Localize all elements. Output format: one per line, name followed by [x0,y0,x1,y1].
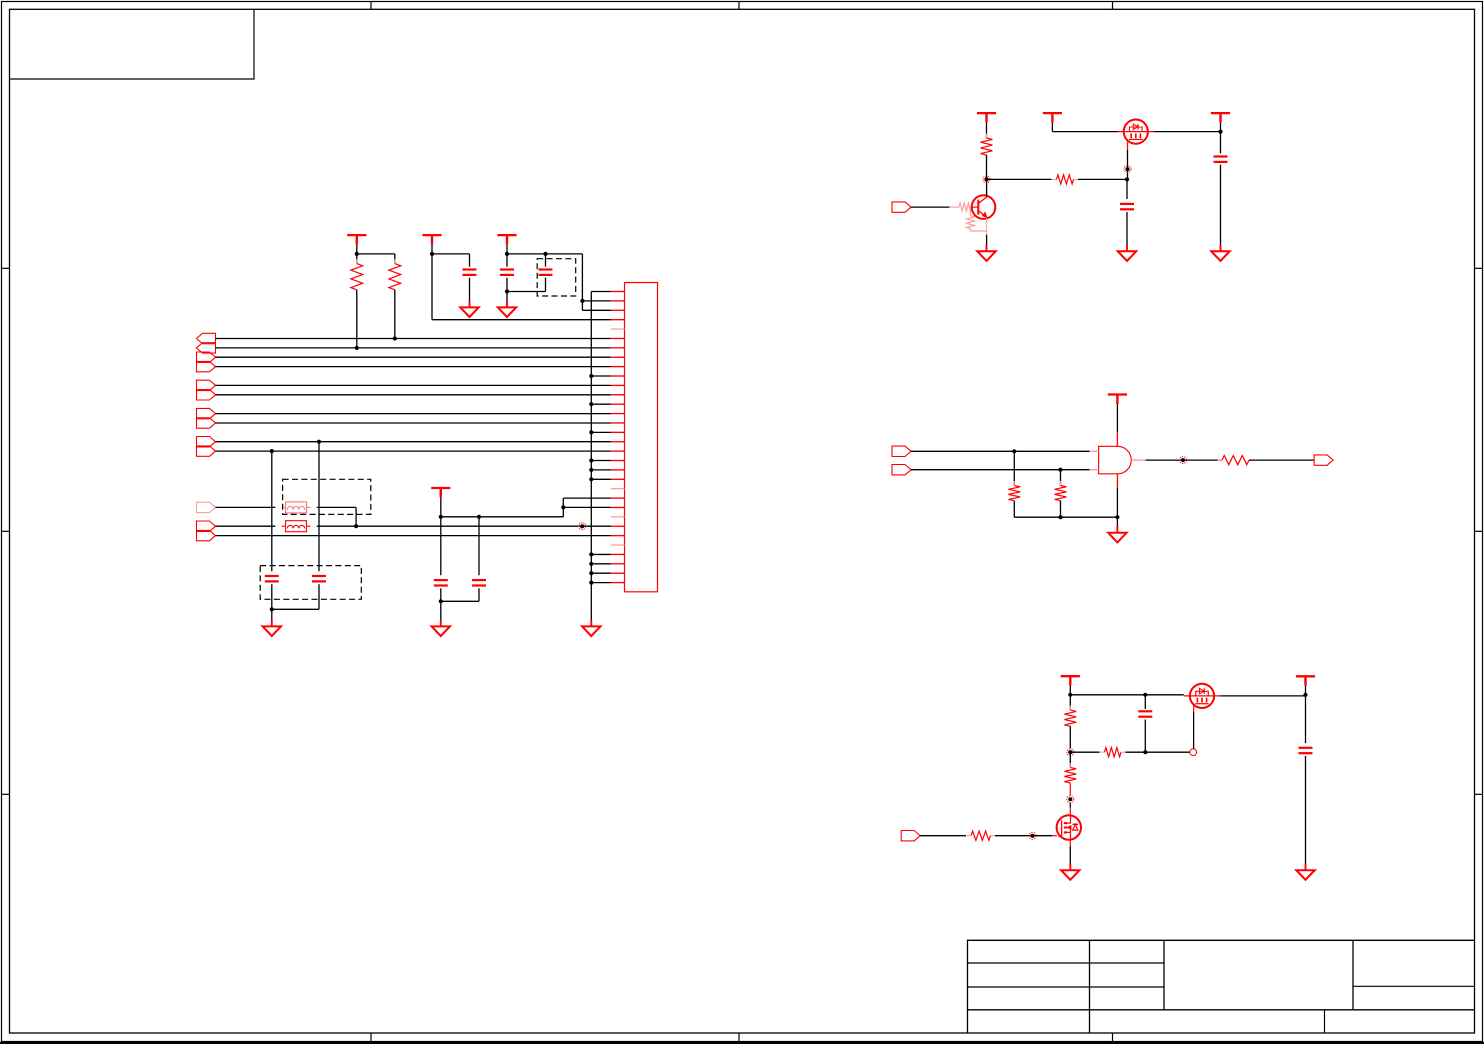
resistor R4 gate series [1052,178,1057,180]
wire C4 bottom to gnd rail [271,584,273,621]
wire VCC3 rail down at right [581,254,583,310]
power flag VCC4 (mid caps) [431,487,450,489]
border zone tick bottom 2 [738,1033,740,1042]
ground under Q3 [1069,864,1071,870]
capacitor C9 output bulk [1214,155,1228,157]
wire port P5 to pin 11 [216,384,611,386]
wire VCC2 to C1 top [432,253,470,255]
power flag VCC6 (PMOS source) [1043,112,1062,114]
border zone tick top 3 [1112,2,1114,10]
test point collector node [985,177,989,181]
DNP dashed box around FB1 [283,479,371,514]
power flag VOUT1 [1211,112,1230,114]
port P5 [197,380,216,390]
wire gate node to R9 [1070,751,1099,753]
title block outline [968,940,1475,1033]
node GND bus to pin 21 [589,477,593,481]
wire VCC4 stem [440,498,442,517]
capacitor C10 gate RC [1144,695,1146,709]
wire R7 to port P17 [1249,459,1314,461]
wire port P4 to pin 9 [216,366,611,368]
border zone tick bottom 1 [370,1033,372,1042]
connector J1 pin 15 [611,422,625,424]
node output junction [1303,693,1307,697]
wire port P7 to pin 14 [216,413,611,415]
capacitor C3 (in DNP box) [545,254,547,267]
wire to ground under C2 [506,292,508,302]
wire VCC1 stem [356,245,358,254]
resistor R1 [356,259,358,264]
connector J1 pin 7 [611,347,625,349]
wire VCC3 top rail to right [507,253,582,255]
node VCC8 junction [1068,693,1072,697]
node GND bus to pin 16 [589,430,593,434]
node P9 branch [317,440,321,444]
wire to connector pin 2 [582,300,611,302]
capacitor C5 (in DNP box) [312,575,326,577]
connector J1 pin 31 [611,572,625,574]
connector J1 pin 21 [611,478,625,480]
node C7 branch [477,515,481,519]
power flag VCC2 (filter caps) [422,234,441,236]
connector J1 pin 14 [611,413,625,415]
node GND bus to pin 20 [589,468,593,472]
DNP dashed box around C4 C5 [260,566,361,600]
port P17 output [1314,455,1333,465]
AND gate U1 [1099,446,1132,474]
node C4 gnd junction [270,607,274,611]
wire port P10 to pin 18 [216,450,611,452]
node P10 branch [270,449,274,453]
U1 ground pin stub [1116,474,1118,488]
wire port P12 to bead FB2 [216,525,276,527]
sheet bottom edge thick bar [0,1042,1484,1044]
wire R6 top lead [1060,470,1062,486]
node C10 bottom junction [1143,750,1147,754]
port P6 [197,390,216,400]
connector J1 pin 3 [611,309,625,311]
wire bus to pin 1 [591,291,611,293]
wire R5 top lead [1013,451,1015,485]
connector J1 pin 5 [611,328,625,330]
title block column line 2 [1163,940,1165,1010]
wire Q1 collector up [986,179,988,196]
border zone tick right 3 [1475,793,1483,795]
wire U1 output to R7 [1146,459,1222,461]
connector J1 pin 12 [611,394,625,396]
connector J1 pin 2 [611,300,625,302]
wire U1 ground pin down [1116,487,1118,526]
capacitor C4 (in DNP box) [265,575,279,577]
wire VCC2 down to connector pin 4 row [431,254,433,320]
connector J1 pin 18 [611,450,625,452]
node pin2 branch [580,299,584,303]
wire C2 bottom [506,278,508,292]
ground under U1 [1116,527,1118,533]
node GND bus to pin 30 [589,562,593,566]
resistor R7 output series [1218,459,1223,461]
wire P16 to U1 input B [911,469,1090,471]
node C3 top junction [543,252,547,256]
resistor R6 pulldown B [1060,481,1062,486]
wire P14 to Q1 base resistor [911,206,950,208]
wire Q1 emitter to ground [986,218,988,235]
node FB1 joins P12 net [354,524,358,528]
resistor R3 collector pull-up [986,134,988,139]
power flag VCC7 [1108,393,1127,395]
wire VCC8 stem [1069,686,1071,695]
ground under C11 [1305,864,1307,870]
wire to connector pin 3 [582,309,611,311]
node C2 bottom junction [505,289,509,293]
wire VCC5 to R3 [986,123,988,138]
test point on pin26 net [580,524,584,528]
port P16 gate input B [892,465,911,475]
title block row line 2 left [968,986,1165,988]
port P3 [197,352,216,362]
wire R4 to gate node [1078,178,1127,180]
test point gate drive node [1068,750,1072,754]
wire port P9 to pin 17 [216,441,611,443]
test point Q2 gate [1126,167,1130,171]
connector J1 pin 22 [611,488,625,490]
wire R1 top lead [356,254,358,264]
power flag VCC1 (pull-up rail) [347,234,366,236]
transistor Q4 PMOS load switch [1190,684,1214,708]
wire to connector pin 23 [563,497,611,499]
connector J1 pin 26 [611,525,625,527]
test point Q3 drain [1068,797,1072,801]
node GND bus to pin 10 [589,374,593,378]
connector J1 pin 32 [611,582,625,584]
ground under C9 [1220,245,1222,251]
wire VOUT2 stem [1305,686,1307,695]
power flag VCC5 [977,112,996,114]
border zone tick top 2 [738,2,740,10]
connector J1 pin 24 [611,506,625,508]
wire port P11 to bead FB1 [216,506,276,508]
node C10 top branch [1143,693,1147,697]
ground under C1 [469,301,471,307]
wire gate node down to C8 [1126,179,1128,199]
connector J1 pin 25 [611,516,625,518]
wire VCC4 rail right [441,516,564,518]
port P4 [197,361,216,371]
wire port P6 to pin 12 [216,394,611,396]
connector J1 pin 8 [611,356,625,358]
port P2 (left-pointing) [197,343,216,353]
wire Q4 drain to output [1220,695,1305,697]
node VCC2 junction [430,252,434,256]
wire C7 bottom link [478,588,480,601]
Q4 gate pin circle [1190,749,1197,756]
capacitor C6 [434,579,448,581]
capacitor C8 gate filter [1120,203,1134,205]
wire collector node to R4 [987,178,1052,180]
connector J1 pin 9 [611,366,625,368]
node GND bus to pin 29 [589,552,593,556]
node R1-wire junction [355,346,359,350]
connector J1 pin 27 [611,535,625,537]
wire Q4 gate vertical [1193,708,1195,749]
wire VOUT1 stem [1220,123,1222,132]
border zone tick left 3 [2,793,10,795]
connector J1 pin 28 [611,544,625,546]
node C6 gnd junction [439,599,443,603]
capacitor C11 output [1299,747,1313,749]
port P11 (faded) [197,502,216,512]
ferrite bead FB1 (faded) [282,502,311,513]
U1 output pin stub [1131,459,1145,461]
resistor R5 pulldown A [1013,481,1015,486]
resistor R2 [394,259,396,264]
wire C2-C3 bottom link [507,291,546,293]
border zone tick top 1 [370,2,372,10]
port P12 [197,521,216,531]
title block column line 3 [1352,940,1354,1010]
wire R3 to collector node [986,155,988,179]
node Q2 output junction [1218,130,1222,134]
connector J1 pin 16 [611,431,625,433]
wire VCC1 to R2 top [357,253,395,255]
port P7 [197,408,216,418]
DNP dashed box around C3 [537,259,576,296]
connector J1 pin 11 [611,384,625,386]
wire VCC8 rail to Q4 source [1070,694,1183,696]
wire C8 to ground [1126,212,1128,246]
title block row line 3 [968,1009,1475,1011]
ground under C2 [506,301,508,307]
U1 input pin stubs [1090,450,1099,452]
port P15 gate input A [892,446,911,456]
capacitor C7 [472,579,486,581]
wire R10 to Q3 drain [1069,783,1071,795]
wire port P8 to pin 15 [216,422,611,424]
wire VCC4 rail up to pins 23/24 [562,498,564,517]
wire port P1 to pin 6 [216,338,611,340]
connector J1 body [625,283,658,592]
border zone tick right 2 [1475,530,1483,532]
wire C7 top lead [478,517,480,575]
node VCC4 junction [439,515,443,519]
node GND bus to pin 31 [589,571,593,575]
node R6 gnd junction [1058,515,1062,519]
wire P15 to U1 input A [911,450,1090,452]
wire port P13 to pin 27 [216,535,611,537]
node GND bus to pin 19 [589,458,593,462]
border zone tick left 2 [2,530,10,532]
port P8 [197,418,216,428]
ground under connector GND bus [590,620,592,626]
wire C11 to ground [1305,756,1307,865]
test point U1 output [1181,458,1185,462]
connector J1 pin 4 [611,319,625,321]
wire R8-R10 chain [1069,752,1071,767]
connector J1 pin 20 [611,469,625,471]
wire port P2 to pin 7 [216,347,611,349]
revision history box top-left [10,9,255,79]
transistor Q3 NMOS [1057,815,1081,839]
resistor R11 gate series [967,835,972,837]
wire R1 bottom to net [356,290,358,348]
node R2-wire junction [393,336,397,340]
connector J1 pin 10 [611,375,625,377]
wire VCC3 stem [506,245,508,254]
gnd rail under U1 [1014,516,1117,518]
resistor R8 gate pull-up [1069,706,1071,711]
wire C9 to ground [1220,165,1222,246]
capacitor C2 [500,268,514,270]
wire Q3 source to ground [1069,840,1071,847]
ground under C8 [1126,245,1128,251]
wire VCC7 to U1 power pin [1116,404,1118,432]
transistor Q2 PMOS high-side [1124,120,1148,144]
wire C2 top lead [506,254,508,267]
wire FB2 to pin 26 [317,525,611,527]
wire C1 bottom to ground [469,278,471,302]
node gate-RC junction [1125,177,1129,181]
wire VCC2 stem [431,245,433,254]
transistor Q1 digital NPN [950,206,960,208]
wire P18 to R11 [920,835,966,837]
title block column line 1 [1089,940,1091,1033]
wire R2 bottom to net [394,290,396,339]
wire P9 down to C5 [318,442,320,572]
wire R8 top lead [1069,695,1071,710]
node input A pulldown branch [1012,449,1016,453]
node VCC1 junction [355,252,359,256]
power flag VCC8 [1061,675,1080,677]
ground under Q1 [986,245,988,251]
wire Q2 gate down [1127,144,1129,150]
wire output down to C11 [1305,695,1307,743]
wire C6 bottom to gnd [440,588,442,621]
node U1 gnd junction [1115,515,1119,519]
ferrite bead FB2 [282,521,311,532]
connector J1 pin 30 [611,563,625,565]
wire R11 to Q3 gate [995,835,1052,837]
node GND bus to pin 13 [589,402,593,406]
ground under C4 [271,620,273,626]
power flag VCC3 (connector supply) [497,234,516,236]
wire VCC4 down to C6 [440,517,442,575]
wire R5 to gnd rail [1013,501,1015,518]
title block row line 2 right [1353,985,1475,987]
capacitor C1 [463,268,477,270]
wire R8 to gate node [1069,726,1071,748]
title block bottom row divider [1324,1010,1326,1033]
wire port P3 to pin 8 [216,356,611,358]
port P13 [197,530,216,540]
wire FB1 to P12 net [317,506,356,508]
resistor R10 gate pulldown chain [1069,763,1071,768]
connector J1 pin 6 [611,337,625,339]
connector J1 pin 1 [611,291,625,293]
border zone tick bottom 3 [1112,1033,1114,1042]
wire Q2 drain to output node [1154,131,1220,133]
border zone tick left 1 [2,267,10,269]
wire P10 down to C4 [271,451,273,571]
wire C5 bottom to gnd rail [318,584,320,609]
port P10 [197,446,216,456]
node input B pulldown branch [1058,468,1062,472]
title block row line 1 [968,962,1165,964]
node VCC3 junction [505,252,509,256]
node GND bus to pin 32 [589,580,593,584]
wire R6 to gnd rail [1060,501,1062,518]
port P18 enable input [901,831,920,841]
power flag VOUT2 [1296,675,1315,677]
test point Q3 gate [1031,834,1035,838]
resistor R9 gate series [1100,751,1105,753]
connector J1 pin 19 [611,460,625,462]
wire to connector pin 24 [563,506,611,508]
connector J1 pin 29 [611,553,625,555]
wire R9 to Q4 gate [1126,751,1190,753]
port P1 (left-pointing) [197,333,216,343]
connector J1 pin 17 [611,441,625,443]
node pin24 branch [561,505,565,509]
port P9 [197,437,216,447]
port P14 control input [892,202,911,212]
U1 power pin stub [1116,432,1118,446]
border zone tick right 1 [1475,267,1483,269]
wire output node to C9 [1220,132,1222,154]
connector J1 pin 23 [611,497,625,499]
wire TP to Q3 [1069,803,1071,808]
GND bus vertical at connector [590,292,592,621]
wire C4-C5 ground link [272,608,319,610]
wire VCC6 down and right to Q2 [1051,123,1053,132]
connector J1 pin 13 [611,403,625,405]
ground under C6 [440,620,442,626]
